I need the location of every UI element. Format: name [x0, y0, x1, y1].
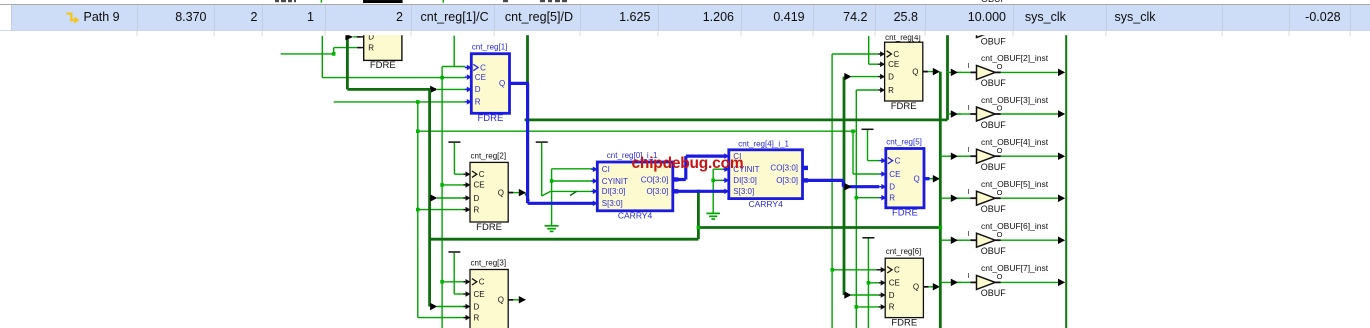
svg-text:CE: CE: [888, 60, 899, 69]
svg-text:cnt_OBUF[2]_inst: cnt_OBUF[2]_inst: [981, 53, 1049, 63]
svg-text:R: R: [889, 303, 895, 312]
svg-text:I: I: [967, 273, 969, 280]
svg-text:DI[3:0]: DI[3:0]: [602, 187, 626, 196]
svg-text:O: O: [997, 272, 1003, 281]
svg-text:R: R: [474, 205, 480, 214]
svg-text:I: I: [967, 189, 969, 196]
svg-text:cnt_OBUF[4]_inst: cnt_OBUF[4]_inst: [981, 137, 1049, 147]
svg-text:I: I: [967, 231, 969, 238]
svg-text:CI: CI: [602, 165, 610, 174]
svg-text:CARRY4: CARRY4: [618, 211, 653, 221]
svg-text:C: C: [480, 63, 486, 72]
svg-text:I: I: [967, 147, 969, 154]
svg-text:FDRE: FDRE: [891, 101, 917, 112]
svg-text:D: D: [889, 291, 895, 300]
svg-text:C: C: [894, 266, 900, 275]
svg-text:cnt_reg[4]_i_1: cnt_reg[4]_i_1: [738, 140, 789, 149]
svg-text:OBUF: OBUF: [981, 246, 1007, 256]
svg-text:cnt_OBUF[6]_inst: cnt_OBUF[6]_inst: [981, 221, 1049, 231]
svg-text:OBUF: OBUF: [981, 162, 1007, 172]
svg-text:C: C: [895, 156, 901, 165]
svg-text:O: O: [997, 104, 1003, 113]
svg-text:Q: Q: [914, 175, 920, 184]
svg-text:Q: Q: [498, 188, 504, 197]
svg-text:chipdebug.com: chipdebug.com: [632, 155, 744, 172]
svg-text:cnt_OBUF[7]_inst: cnt_OBUF[7]_inst: [981, 263, 1049, 273]
svg-text:OBUF: OBUF: [981, 78, 1007, 88]
svg-text:R: R: [474, 313, 480, 322]
svg-text:cnt_reg[6]: cnt_reg[6]: [886, 247, 922, 256]
svg-text:Q: Q: [499, 79, 505, 88]
svg-text:I: I: [967, 105, 969, 112]
svg-text:FDRE: FDRE: [476, 222, 502, 233]
svg-text:C: C: [479, 278, 485, 287]
svg-text:CE: CE: [474, 181, 485, 190]
svg-text:OBUF: OBUF: [981, 36, 1007, 46]
svg-text:C: C: [893, 50, 899, 59]
svg-text:cnt_OBUF[5]_inst: cnt_OBUF[5]_inst: [981, 179, 1049, 189]
svg-text:D: D: [474, 194, 480, 203]
svg-text:Q: Q: [498, 296, 504, 305]
svg-text:S[3:0]: S[3:0]: [602, 199, 623, 208]
svg-text:cnt_reg[2]: cnt_reg[2]: [471, 151, 507, 160]
svg-text:CE: CE: [889, 279, 900, 288]
svg-text:CE: CE: [474, 290, 485, 299]
svg-text:Q: Q: [913, 283, 919, 292]
svg-text:O: O: [997, 188, 1003, 197]
svg-text:D: D: [888, 72, 894, 81]
svg-text:O[3:0]: O[3:0]: [647, 187, 669, 196]
svg-text:CO[3:0]: CO[3:0]: [641, 175, 669, 184]
svg-text:S[3:0]: S[3:0]: [733, 187, 754, 196]
svg-text:D: D: [474, 302, 480, 311]
svg-text:DI[3:0]: DI[3:0]: [733, 176, 757, 185]
svg-text:C: C: [479, 170, 485, 179]
svg-text:cnt_reg[1]: cnt_reg[1]: [472, 43, 508, 52]
svg-text:FDRE: FDRE: [477, 113, 503, 124]
svg-text:R: R: [475, 98, 481, 107]
svg-text:OBUF: OBUF: [981, 288, 1007, 298]
svg-text:OBUF: OBUF: [981, 120, 1007, 130]
svg-text:Q: Q: [912, 67, 918, 76]
svg-text:R: R: [888, 86, 894, 95]
svg-text:D: D: [889, 183, 895, 192]
svg-text:CE: CE: [889, 170, 900, 179]
svg-text:O[3:0]: O[3:0]: [776, 176, 798, 185]
svg-text:O: O: [997, 146, 1003, 155]
svg-text:cnt_reg[5]: cnt_reg[5]: [886, 138, 922, 147]
svg-text:CE: CE: [475, 73, 486, 82]
svg-text:I: I: [967, 63, 969, 70]
svg-text:CO[3:0]: CO[3:0]: [770, 164, 798, 173]
svg-text:FDRE: FDRE: [370, 60, 396, 71]
svg-text:R: R: [889, 194, 895, 203]
svg-text:FDRE: FDRE: [892, 208, 918, 219]
svg-text:cnt_OBUF[3]_inst: cnt_OBUF[3]_inst: [981, 95, 1049, 105]
svg-text:CARRY4: CARRY4: [748, 199, 783, 209]
svg-text:OBUF: OBUF: [981, 204, 1007, 214]
svg-text:D: D: [475, 85, 481, 94]
svg-text:CYINIT: CYINIT: [602, 177, 628, 186]
svg-text:O: O: [997, 230, 1003, 239]
svg-text:FDRE: FDRE: [891, 317, 917, 328]
svg-text:R: R: [368, 43, 374, 52]
svg-text:O: O: [997, 62, 1003, 71]
svg-text:cnt_reg[3]: cnt_reg[3]: [471, 259, 507, 268]
